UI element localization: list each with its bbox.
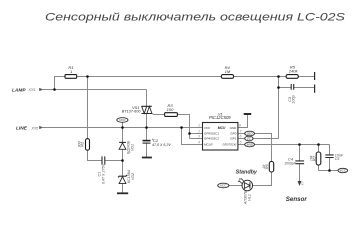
label Sensor	[286, 196, 308, 203]
resistor R3	[165, 103, 178, 116]
ground at VD2	[117, 192, 128, 194]
wire C2 top lead	[146, 128, 148, 141]
wire R5 leads	[279, 76, 315, 78]
node at SNS / R7	[317, 143, 320, 146]
svg-text:Сенсорный выключатель освещени: Сенсорный выключатель освещения LC-02S	[45, 12, 346, 24]
capacitor C3	[287, 84, 296, 104]
node at C3 branch	[277, 86, 280, 89]
wire top net to R4	[88, 76, 222, 78]
wire GND pin 8	[238, 115, 248, 128]
wire R6 bottom to LED	[253, 172, 272, 186]
wire VD2 leads	[122, 161, 124, 193]
svg-text:LINE: LINE	[16, 126, 28, 132]
wire LAMP horizontal	[43, 89, 147, 91]
svg-text:GP4/OSC2: GP4/OSC2	[204, 137, 219, 141]
capacitor C1	[97, 156, 106, 184]
node at VCC rail / MCLR	[180, 126, 183, 129]
wire LED row to R6	[254, 134, 271, 162]
zener VD2	[118, 169, 135, 183]
node LED	[245, 131, 255, 136]
svg-text:MCU: MCU	[218, 126, 226, 130]
capacitor C5	[325, 153, 343, 161]
wire pin6 stub	[238, 138, 245, 140]
svg-text:GP1: GP1	[230, 137, 236, 141]
resistor R4	[221, 65, 233, 78]
svg-text:HL1: HL1	[247, 194, 251, 201]
pin number 6	[240, 135, 242, 139]
pin number 1	[198, 124, 200, 128]
node at R1/R2/R4	[86, 75, 89, 78]
node at SNS / C4	[298, 143, 301, 146]
wire LINE horizontal	[43, 127, 203, 129]
node at C5 bottom	[328, 169, 331, 172]
svg-text:R2: R2	[80, 141, 85, 147]
wire R2 bottom to C1	[88, 150, 103, 160]
svg-text:X?: X?	[301, 181, 305, 186]
sensor connector arrow	[298, 181, 305, 186]
svg-text:LED: LED	[247, 132, 254, 136]
wire R3 to pins 2,3	[177, 115, 202, 139]
node at pin2 branch	[188, 132, 191, 135]
triac VS1	[122, 105, 152, 114]
svg-text:4: 4	[198, 141, 200, 145]
terminal plate lower	[314, 85, 316, 93]
node ZC	[245, 136, 253, 141]
wire C4 to sensor arrow	[299, 164, 301, 181]
wire R1 left lead	[55, 77, 66, 90]
pin number 5	[240, 141, 242, 145]
svg-text:100: 100	[167, 107, 174, 112]
wire ZC row	[254, 138, 279, 140]
wire node down to C3 and ZC	[278, 77, 280, 139]
terminal plate upper	[314, 72, 316, 80]
svg-text:MCLR: MCLR	[204, 143, 213, 147]
title	[45, 12, 346, 24]
diode VD1	[119, 140, 134, 154]
pin number 8	[239, 124, 241, 128]
wire C5 leads	[329, 145, 331, 171]
pin number 2	[197, 130, 200, 134]
svg-text:1000pF: 1000pF	[284, 161, 296, 165]
svg-text:GP5/OSC1: GP5/OSC1	[204, 132, 219, 136]
wire triac gate to R3	[152, 114, 165, 115]
resistor R1	[65, 65, 77, 78]
svg-text:BT137-600: BT137-600	[122, 110, 142, 114]
capacitor C2	[143, 137, 172, 147]
wire triac MT1	[146, 114, 148, 128]
wire VCC oval stub	[122, 122, 124, 127]
svg-text:SNS: SNS	[246, 143, 253, 147]
svg-text:3: 3	[198, 135, 200, 139]
wire pin7 stub	[238, 133, 245, 135]
resistor R7	[308, 152, 321, 165]
svg-text:R7: R7	[312, 155, 317, 161]
wire MCLR tie	[182, 128, 203, 145]
ground at C2	[142, 157, 152, 159]
capacitor C4	[284, 157, 304, 166]
wire C1 to node	[105, 160, 123, 162]
svg-text:LAMP: LAMP	[12, 87, 26, 93]
wire R4 to node	[234, 76, 279, 78]
wire C3 leads	[279, 87, 315, 89]
wire pin5 stub	[238, 144, 245, 146]
svg-text:2: 2	[197, 130, 200, 134]
node at VCC rail / VD1	[121, 126, 124, 129]
svg-text:X?/2: X?/2	[31, 126, 39, 130]
svg-text:47,0 X 6,3V: 47,0 X 6,3V	[152, 143, 171, 147]
svg-text:240k: 240k	[288, 69, 299, 74]
svg-text:7: 7	[240, 130, 242, 134]
svg-text:1: 1	[198, 124, 200, 128]
svg-text:6: 6	[240, 135, 242, 139]
node VCC near LED	[218, 183, 229, 188]
pin number 7	[240, 130, 242, 134]
resistor R5	[286, 65, 298, 79]
svg-text:1M: 1M	[225, 69, 231, 74]
svg-text:GND: GND	[230, 126, 238, 130]
wire C4 top lead	[299, 145, 301, 161]
wire VD1 leads	[122, 128, 124, 161]
resistor R6	[261, 162, 274, 173]
wire R7 leads	[318, 145, 320, 171]
svg-text:R6: R6	[264, 163, 269, 169]
connector LAMP terminal	[39, 88, 43, 91]
svg-text:5: 5	[240, 141, 242, 145]
wire VCC to LED	[229, 185, 242, 187]
svg-text:Standby: Standby	[236, 169, 258, 175]
node at VCC rail / triac / C2	[145, 126, 148, 129]
pin number 3	[198, 135, 200, 139]
node at C1 / VD1 / VD2	[121, 159, 124, 162]
svg-text:VCC: VCC	[340, 169, 347, 173]
pin number 4	[198, 141, 200, 145]
LED HL1 Standby	[236, 169, 258, 205]
svg-text:VCC: VCC	[220, 184, 227, 188]
svg-text:X?/1: X?/1	[28, 88, 36, 92]
node VCC bottom right	[338, 168, 348, 172]
node VCC near triac	[117, 118, 128, 123]
wire SNS row	[254, 144, 329, 146]
svg-text:C5: C5	[335, 157, 340, 161]
node SNS	[245, 142, 255, 147]
wire bottom right to VCC	[319, 170, 339, 172]
svg-text:100p: 100p	[291, 94, 296, 103]
svg-text:ZC: ZC	[246, 137, 252, 141]
svg-text:0,47 X 275V: 0,47 X 275V	[101, 163, 105, 184]
svg-text:VCC: VCC	[119, 118, 126, 122]
svg-text:VCC: VCC	[204, 126, 211, 130]
svg-text:PIC12C509: PIC12C509	[209, 115, 231, 120]
wire triac MT2	[146, 90, 148, 107]
svg-text:VD2: VD2	[131, 173, 135, 180]
resistor R2	[77, 139, 90, 151]
connector LINE terminal	[39, 126, 43, 129]
svg-text:Sensor: Sensor	[286, 196, 308, 203]
IC U1 PIC12C509	[203, 111, 238, 150]
node at R1/LAMP	[53, 88, 56, 91]
svg-text:GP2/T0CKI: GP2/T0CKI	[223, 143, 237, 147]
svg-text:GP0: GP0	[230, 132, 236, 136]
node at R4/R5/C3	[277, 75, 280, 78]
wire R1 right lead	[77, 76, 88, 78]
svg-text:8: 8	[239, 124, 241, 128]
svg-text:VD1: VD1	[131, 144, 135, 151]
label LAMP	[12, 87, 35, 93]
wire C2 bottom lead	[146, 143, 148, 157]
ground at pin 8	[244, 113, 252, 115]
svg-text:1: 1	[70, 69, 72, 74]
label LINE	[16, 126, 38, 132]
wire R2 top lead	[87, 77, 89, 139]
